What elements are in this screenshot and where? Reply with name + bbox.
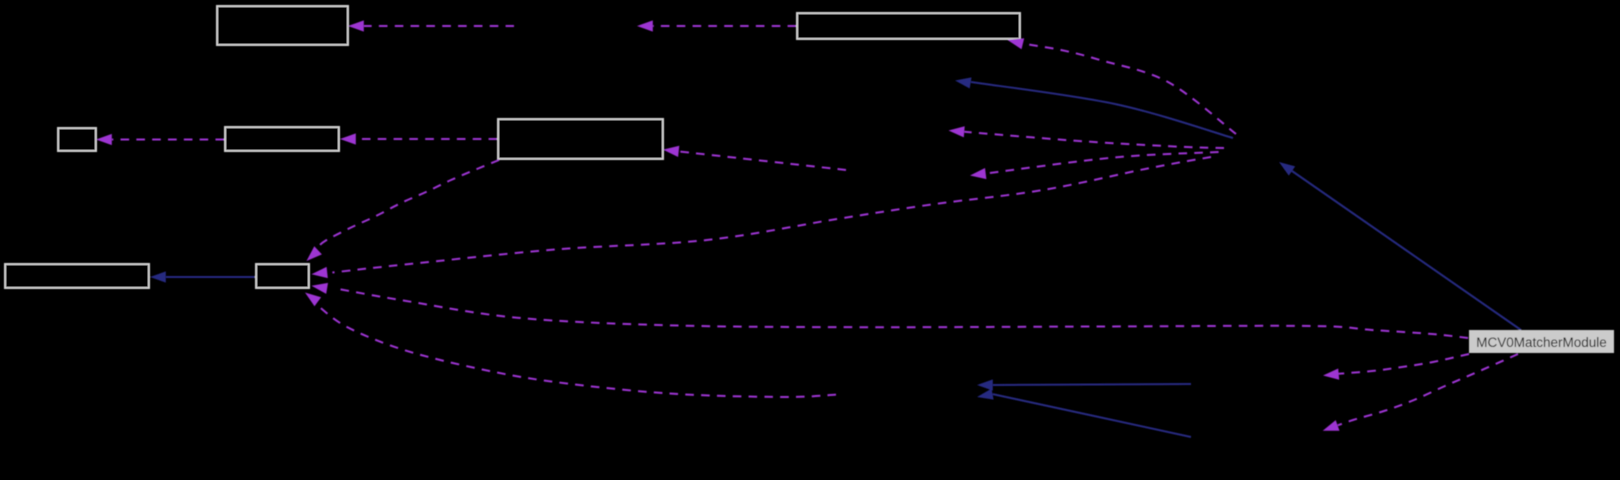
edge: MCV0MatcherModule to hidden node T2 (dashed) [1338, 354, 1518, 425]
edge: hidden hub to hidden node R1 (solid blue curve) [971, 82, 1233, 138]
node MCV0MatcherModule (highlighted, grey fill) [1469, 330, 1614, 353]
edge: box B to hidden node (dashed) [653, 25, 796, 27]
node box B (empty label) [797, 13, 1020, 39]
node box G (empty label) [256, 264, 309, 288]
node box E (empty label) [498, 119, 663, 159]
edge: box G to box F (solid blue inheritance) [166, 276, 255, 278]
edge: MCV0MatcherModule to hidden node T1 (dashed) [1339, 354, 1469, 374]
edge: hidden hub to box G (dashed curve) [332, 157, 1211, 273]
edge: hidden node T1 to hidden node S (solid blue) [993, 384, 1191, 385]
edge: box D to box C (dashed) [112, 139, 224, 141]
edge: MCV0MatcherModule to hidden hub (solid blue) [1292, 171, 1521, 330]
edge: hidden hub to box B (dashed curve) [1023, 44, 1236, 134]
edge: MCV0MatcherModule to box G (long dashed curve) [334, 288, 1468, 338]
edge: hidden hub to hidden node R3 (dashed) [986, 152, 1219, 174]
edge: box E to box D (dashed) [356, 138, 497, 140]
svg-text:MCV0MatcherModule: MCV0MatcherModule [1476, 335, 1607, 350]
edge: hidden node R3 to box E (dashed) [679, 151, 846, 170]
edge: hidden node S to box G (dashed curve) [316, 304, 836, 397]
node box A (empty label) [217, 6, 348, 45]
edge: box E to box G (dashed curve) [317, 160, 499, 249]
node box D (empty label) [225, 127, 339, 151]
edge: hidden node to box A (dashed) [364, 25, 514, 27]
node box C (empty label) [58, 128, 96, 151]
edge: hidden hub to hidden node R2 (dashed) [964, 132, 1224, 148]
node box F (empty label) [5, 264, 149, 288]
edge: hidden node T2 to hidden node S (solid blue) [993, 394, 1191, 437]
